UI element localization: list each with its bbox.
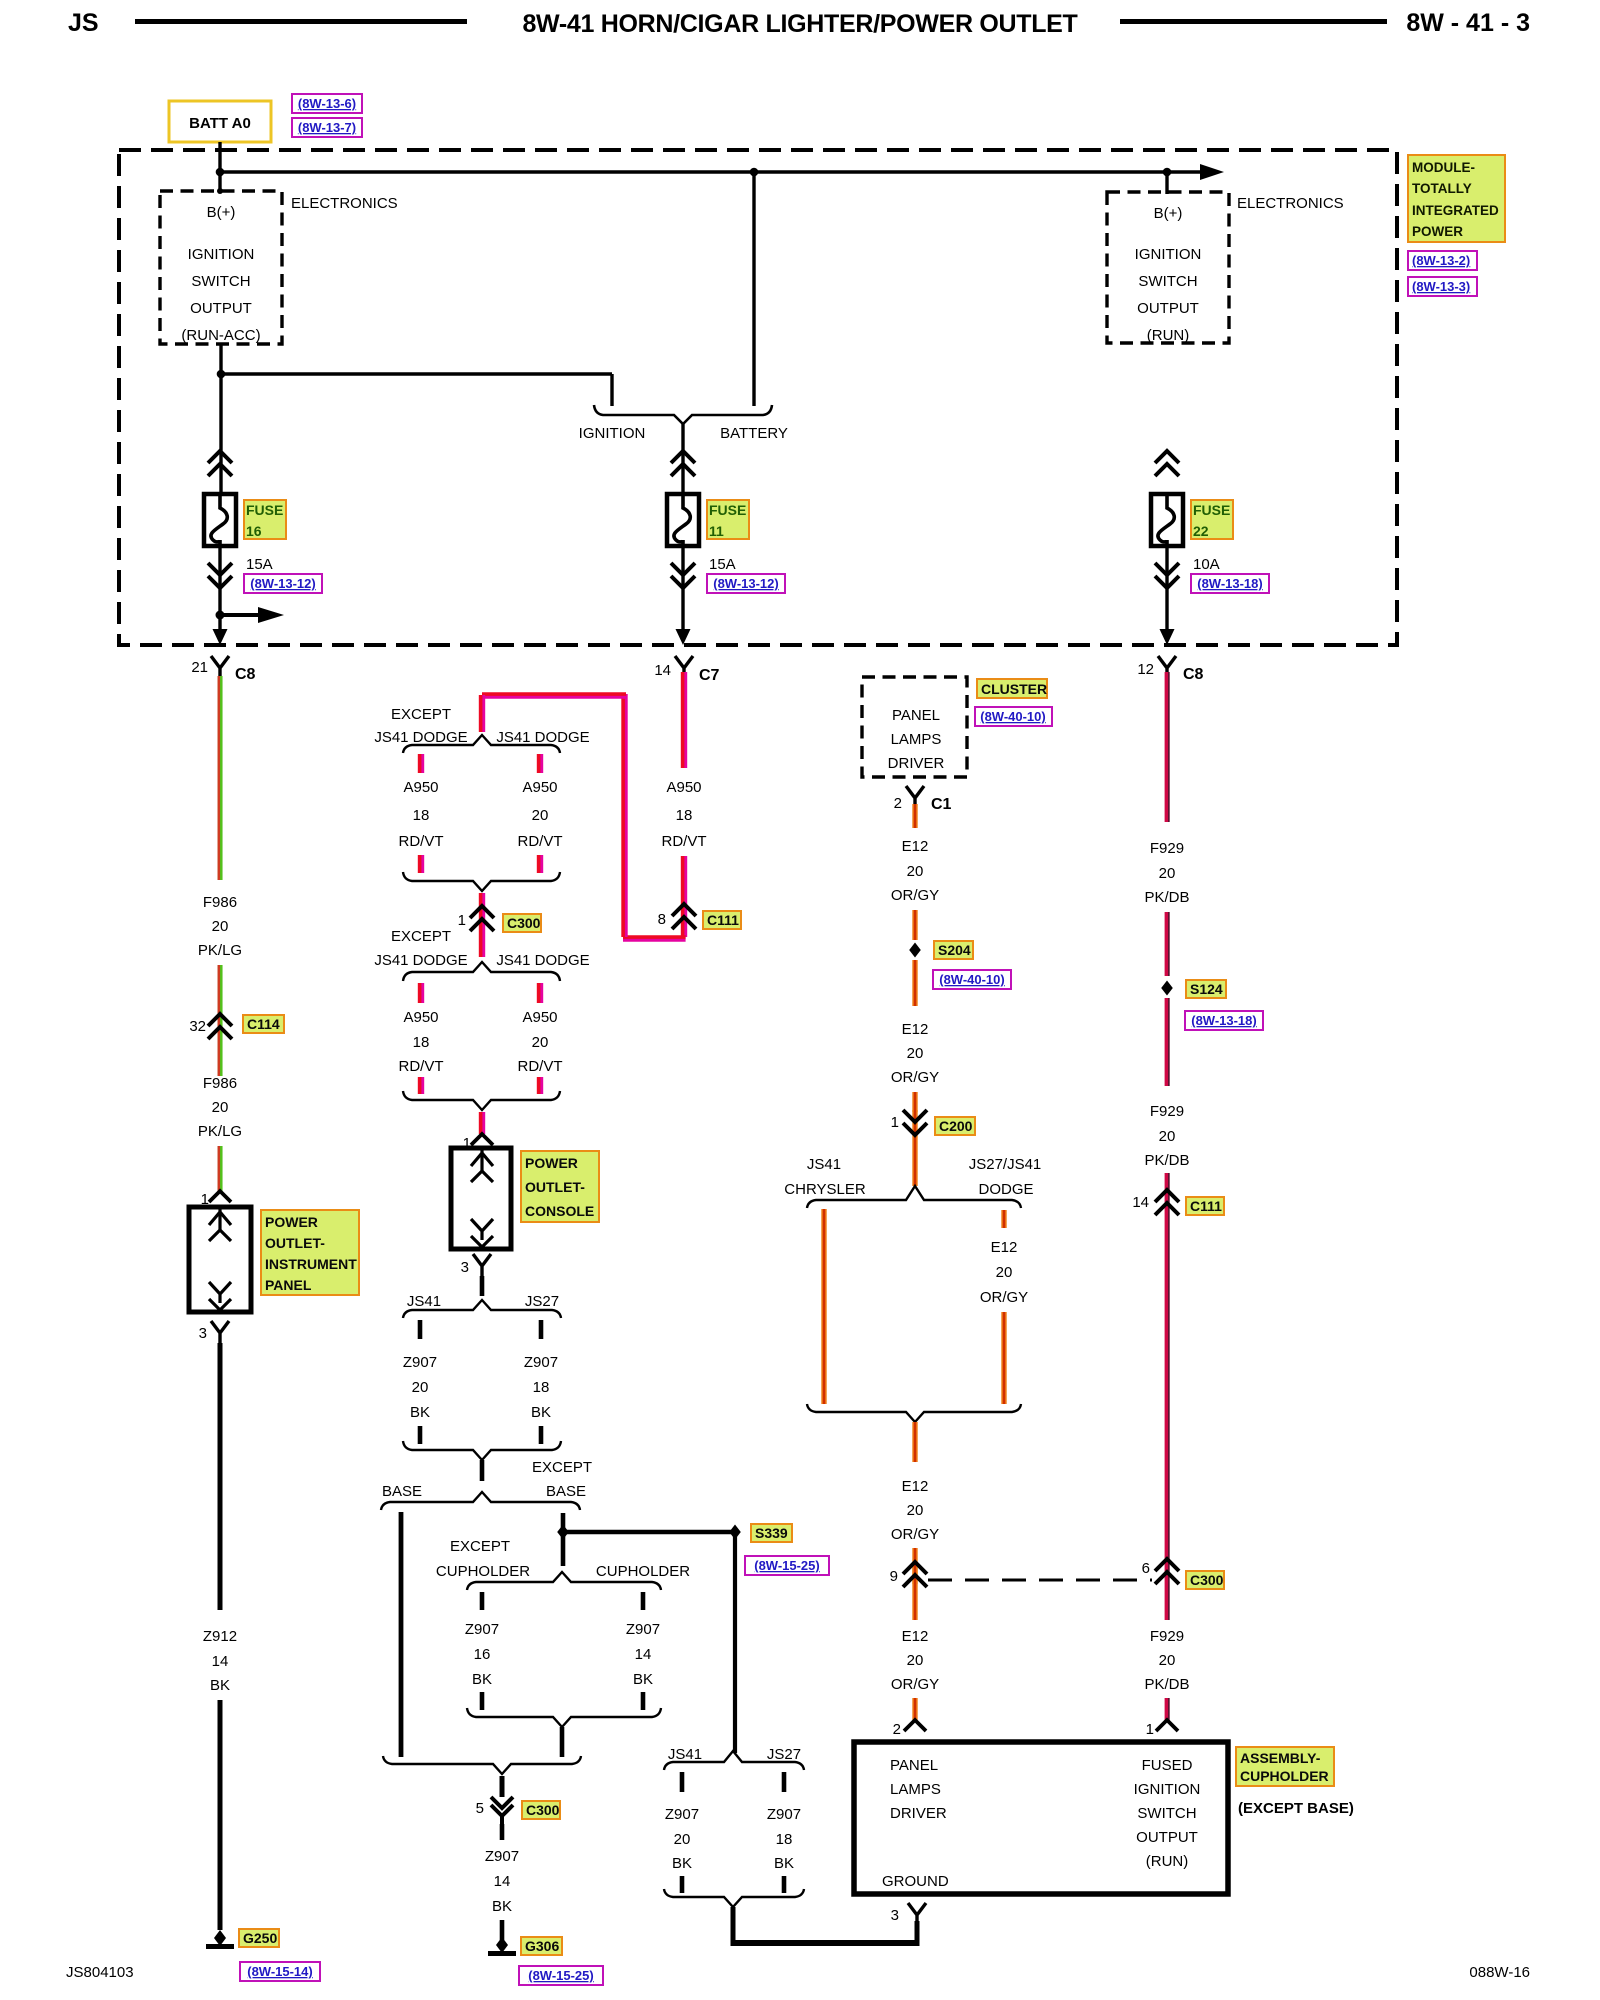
label C300 (pin5) [522,1801,560,1819]
svg-text:G306: G306 [525,1938,559,1954]
svg-text:BASE: BASE [546,1483,586,1500]
value Z907 18 BK (right) [767,1806,801,1872]
svg-text:14: 14 [494,1873,511,1890]
svg-text:20: 20 [907,863,924,880]
label C200 [935,1117,975,1135]
wire BASE branch (long) [399,1512,404,1757]
connector C8 pin 21 [191,656,255,683]
svg-text:(8W-13-7): (8W-13-7) [298,120,356,135]
svg-text:C8: C8 [235,666,256,683]
svg-text:ASSEMBLY-: ASSEMBLY- [1240,1750,1321,1766]
wire E12 20 OR/GY from C1 [912,804,917,828]
wire merged cupholder [560,1727,565,1757]
svg-text:OR/GY: OR/GY [891,1526,939,1543]
svg-text:POWER: POWER [1412,224,1463,239]
connector B(+) ignition switch output RUN (dashed box) [1107,192,1229,344]
svg-text:S124: S124 [1190,981,1223,997]
wire below S339 left [561,1532,566,1566]
wire stubs to merge [418,1426,423,1444]
link (8W-13-12) fuse 11 [707,574,785,593]
wire to power outlet console [481,1112,483,1134]
wire dashed pairing C300 [928,1579,1152,1582]
label CLUSTER [977,679,1047,698]
svg-text:20: 20 [412,1379,429,1396]
link (8W-13-12) fuse 16 [244,574,322,593]
svg-text:C300: C300 [526,1802,560,1818]
svg-text:JS804103: JS804103 [66,1964,134,1981]
value A950 20 RD/VT right lower [518,1009,563,1075]
svg-text:3: 3 [461,1259,469,1276]
wire console ground lead [480,1276,485,1296]
pin 3 console [461,1254,491,1276]
svg-text:F929: F929 [1150,1628,1184,1645]
svg-text:15A: 15A [709,556,736,573]
label C111 (pin14) [1186,1197,1224,1215]
connector C111 pin 8 [658,904,696,929]
svg-text:1: 1 [458,912,466,929]
wire ignition branch drop [610,374,613,406]
value A950 18 RD/VT left [399,779,444,850]
svg-text:2: 2 [894,795,902,812]
wire from BATT A0 down [218,142,221,191]
svg-text:POWER: POWER [525,1155,578,1171]
svg-text:CUPHOLDER: CUPHOLDER [596,1563,690,1580]
wire [219,965,220,1014]
svg-text:BATT A0: BATT A0 [189,115,251,132]
wire stub JS27 [539,1320,544,1339]
page header [68,9,1530,38]
svg-text:RD/VT: RD/VT [662,833,707,850]
option split JS41 / JS27 (ground return) [664,1751,804,1770]
wire Z912 14 BK upper [218,1343,223,1610]
connector C7 pin 14 [654,656,719,684]
svg-text:(8W-13-6): (8W-13-6) [298,96,356,111]
svg-text:Z912: Z912 [203,1628,237,1645]
svg-text:3: 3 [199,1325,207,1342]
svg-text:20: 20 [674,1831,691,1848]
value F986 20 PK/LG [198,894,242,959]
svg-text:3: 3 [891,1907,899,1924]
svg-text:BATTERY: BATTERY [720,425,788,442]
svg-text:E12: E12 [902,838,929,855]
link 8W-13-2 [1408,251,1477,270]
ground G250 [206,1930,234,1949]
value Z907 20 BK [403,1354,437,1421]
svg-text:C300: C300 [507,915,541,931]
svg-text:FUSE: FUSE [709,502,746,518]
wire stubs [420,983,541,1003]
svg-text:SWITCH: SWITCH [191,273,250,290]
svg-text:8W-41 HORN/CIGAR LIGHTER/POWER: 8W-41 HORN/CIGAR LIGHTER/POWER OUTLET [522,10,1077,38]
wire stubs cupholder [480,1592,485,1610]
svg-text:A950: A950 [403,1009,438,1026]
svg-text:(8W-40-10): (8W-40-10) [980,709,1045,724]
svg-text:EXCEPT: EXCEPT [450,1538,510,1555]
wire B+ bus horizontal with arrow [220,164,1224,180]
svg-text:(EXCEPT BASE): (EXCEPT BASE) [1238,1800,1354,1817]
link 8W-13-18 (S124) [1185,1011,1263,1030]
svg-text:Z907: Z907 [403,1354,437,1371]
svg-text:PANEL: PANEL [892,707,940,724]
link 8W-15-14 [240,1962,320,1981]
label C300 [503,914,541,932]
svg-text:LAMPS: LAMPS [891,731,942,748]
svg-text:A950: A950 [522,1009,557,1026]
svg-text:IGNITION: IGNITION [188,246,255,263]
link (8W-13-18) fuse 22 [1191,574,1269,593]
label ASSEMBLY-CUPHOLDER [1236,1747,1334,1786]
svg-text:32: 32 [189,1018,206,1035]
svg-text:EXCEPT: EXCEPT [391,706,451,723]
wire merged [480,1460,485,1481]
svg-text:F929: F929 [1150,1103,1184,1120]
fuse 11 [667,451,699,645]
wire stubs to merge [680,1876,685,1893]
label C114 [243,1015,284,1033]
svg-text:14: 14 [212,1653,229,1670]
option split JS41 / JS27 [403,1300,561,1318]
svg-text:20: 20 [907,1502,924,1519]
splice S339 junction left [557,1525,569,1540]
svg-text:B(+): B(+) [1154,205,1183,222]
svg-text:(RUN): (RUN) [1146,1853,1189,1870]
svg-text:8W - 41 - 3: 8W - 41 - 3 [1406,9,1530,37]
svg-text:JS41 DODGE: JS41 DODGE [374,952,467,969]
option merge brace (E12) [807,1404,1021,1422]
svg-text:PK/LG: PK/LG [198,942,242,959]
svg-text:F929: F929 [1150,840,1184,857]
wire RUN-ACC output drop [219,344,222,496]
wire long run [1166,1190,1167,1561]
svg-text:EXCEPT: EXCEPT [532,1459,592,1476]
option merge brace upper [403,872,560,891]
svg-text:(8W-15-25): (8W-15-25) [528,1968,593,1983]
svg-text:14: 14 [654,662,671,679]
wire stubs to cupholder merge [480,1692,485,1710]
svg-text:E12: E12 [991,1239,1018,1256]
wire merged E12 [912,1422,917,1462]
node junction with take-off arrow inside TIPM [216,607,285,623]
svg-text:OR/GY: OR/GY [980,1289,1028,1306]
label FUSE 16 [244,500,286,539]
wire to fused ignition input [1166,1698,1167,1722]
svg-text:JS27: JS27 [525,1293,559,1310]
fuse 16 [204,451,236,645]
wire Z912 lower [218,1700,223,1930]
wire [683,856,685,906]
wire JS41 CHRYSLER branch [821,1209,826,1404]
connector C300 pin 9 [890,1562,927,1587]
svg-text:(8W-13-12): (8W-13-12) [250,576,315,591]
value A950 20 RD/VT right [518,779,563,850]
svg-text:BK: BK [672,1855,692,1872]
wire below C300 [481,906,483,957]
svg-text:BK: BK [410,1404,430,1421]
svg-text:F986: F986 [203,1075,237,1092]
svg-text:OR/GY: OR/GY [891,1069,939,1086]
svg-text:CONSOLE: CONSOLE [525,1203,594,1219]
svg-text:B(+): B(+) [207,204,236,221]
svg-text:Z907: Z907 [767,1806,801,1823]
value F929 20 PK/DB third [1144,1628,1189,1693]
wire [219,1014,220,1076]
wire [219,1146,220,1191]
label S204 [934,941,973,959]
svg-text:CHRYSLER: CHRYSLER [784,1181,866,1198]
value E12 20 OR/GY third [891,1478,939,1543]
wire Z907 14 BK to ground [500,1824,505,1840]
svg-text:1: 1 [891,1114,899,1131]
svg-text:18: 18 [776,1831,793,1848]
svg-text:BK: BK [472,1671,492,1688]
wire stub left branch [420,754,422,773]
svg-text:OUTLET-: OUTLET- [265,1235,325,1251]
label C111 [703,911,741,929]
svg-text:16: 16 [474,1646,491,1663]
connector B(+) ignition switch output RUN-ACC (dashed box) [160,191,282,344]
wire right B+ drop [1165,172,1168,194]
value E12 20 OR/GY fourth [891,1628,939,1693]
svg-text:C111: C111 [1190,1198,1222,1214]
option split BASE / EXCEPT BASE [381,1492,580,1510]
pin 3 power outlet IP [199,1321,229,1343]
svg-text:20: 20 [532,807,549,824]
wire ground return [733,1907,920,1946]
label POWER OUTLET-CONSOLE [521,1151,599,1222]
value E12 20 OR/GY second [891,1021,939,1086]
svg-text:C111: C111 [707,912,739,928]
svg-text:C8: C8 [1183,666,1204,683]
svg-text:RD/VT: RD/VT [399,833,444,850]
svg-text:ELECTRONICS: ELECTRONICS [1237,195,1344,212]
svg-text:MODULE-: MODULE- [1412,160,1475,175]
svg-text:JS41: JS41 [407,1293,441,1310]
wire [1166,998,1167,1086]
svg-text:SWITCH: SWITCH [1138,273,1197,290]
option split EXCEPT CUPHOLDER / CUPHOLDER [467,1572,661,1590]
splice S339 [729,1525,741,1540]
svg-text:CUPHOLDER: CUPHOLDER [1240,1768,1329,1784]
wire F986 20 PK/LG upper [219,676,220,880]
svg-text:20: 20 [1159,1128,1176,1145]
svg-text:(RUN): (RUN) [1147,327,1190,344]
label POWER OUTLET-INSTRUMENT PANEL [261,1210,359,1295]
wire stub right branch [539,754,541,773]
svg-text:14: 14 [1132,1194,1149,1211]
svg-text:088W-16: 088W-16 [1469,1964,1530,1981]
svg-text:Z907: Z907 [524,1354,558,1371]
svg-text:15A: 15A [246,556,273,573]
link 8W-40-10 (cluster) [975,707,1052,726]
svg-text:RD/VT: RD/VT [518,833,563,850]
pin 1 chevron console [463,1134,493,1152]
svg-text:Z907: Z907 [465,1621,499,1638]
svg-text:PANEL: PANEL [890,1757,938,1774]
component CLUSTER panel lamps driver (dashed box) [862,677,967,777]
value F986 20 PK/LG lower [198,1075,242,1140]
option split EXCEPT JS41 DODGE / JS41 DODGE (upper) [403,735,560,753]
link 8W-15-25 (G306) [519,1966,603,1985]
link 8W-40-10 (S204) [933,970,1011,989]
svg-text:(8W-13-12): (8W-13-12) [713,576,778,591]
svg-text:PK/DB: PK/DB [1144,1152,1189,1169]
svg-text:IGNITION: IGNITION [579,425,646,442]
pin 1 chevron cupholder assembly [1146,1720,1178,1738]
pin 2 chevron cupholder assembly [893,1720,926,1738]
value Z907 20 BK (left) [665,1806,699,1872]
svg-text:FUSE: FUSE [1193,502,1230,518]
wire [912,1548,917,1584]
svg-text:PK/DB: PK/DB [1144,1676,1189,1693]
svg-text:C1: C1 [931,796,952,813]
svg-text:GROUND: GROUND [882,1873,949,1890]
svg-text:8: 8 [658,911,666,928]
svg-text:(RUN-ACC): (RUN-ACC) [181,327,260,344]
wire red run to option split [481,694,686,939]
svg-text:JS41 DODGE: JS41 DODGE [496,729,589,746]
svg-text:18: 18 [533,1379,550,1396]
svg-text:IGNITION: IGNITION [1135,246,1202,263]
wire stubs [680,1772,685,1792]
wire battery drop [752,172,755,406]
wire F929 20 PK/DB from C8 [1166,672,1167,822]
footer sheet numbers [66,1964,1530,1981]
svg-text:20: 20 [1159,865,1176,882]
switch feed merge brace IGNITION/BATTERY [594,405,772,424]
svg-text:10A: 10A [1193,556,1220,573]
svg-text:OUTPUT: OUTPUT [190,300,252,317]
wire below pin 6 [1166,1559,1167,1620]
connector C8 pin 12 [1137,656,1203,683]
svg-text:PK/DB: PK/DB [1144,889,1189,906]
svg-text:RD/VT: RD/VT [399,1058,444,1075]
wire [912,960,917,1006]
link 8W-15-25 [745,1556,829,1575]
label FUSE 11 [707,500,749,539]
label C300 (pin6) [1186,1571,1224,1589]
wire [500,1920,505,1940]
svg-text:16: 16 [246,523,262,539]
svg-text:BK: BK [492,1898,512,1915]
value E12 20 OR/GY [891,838,939,904]
wire EXCEPT BASE stub [561,1513,566,1530]
svg-text:1: 1 [1146,1721,1154,1738]
pin 3 ground lead [891,1903,926,1925]
wire [912,910,917,940]
wire to panel lamps driver input [912,1698,917,1722]
value F929 20 PK/DB [1144,840,1189,906]
svg-text:22: 22 [1193,523,1209,539]
svg-text:Z907: Z907 [485,1848,519,1865]
svg-text:LAMPS: LAMPS [890,1781,941,1798]
wire splice crossover [563,1530,735,1534]
svg-text:JS27/JS41: JS27/JS41 [969,1156,1042,1173]
svg-text:6: 6 [1142,1560,1150,1577]
connector C111 pin 14 [1132,1190,1179,1215]
wire [1166,1173,1167,1192]
svg-text:DRIVER: DRIVER [888,755,945,772]
svg-text:IGNITION: IGNITION [1134,1781,1201,1798]
svg-text:JS41 DODGE: JS41 DODGE [374,729,467,746]
svg-text:RD/VT: RD/VT [518,1058,563,1075]
svg-text:A950: A950 [522,779,557,796]
splice S204 [909,943,921,958]
node junction at BATT wire [216,168,225,177]
svg-text:2: 2 [893,1721,901,1738]
svg-text:INTEGRATED: INTEGRATED [1412,203,1499,218]
wire to C300 pin 1 [481,893,483,908]
wire stub JS27/JS41 DODGE branch [1001,1210,1006,1228]
node junction ignition branch [217,370,226,379]
connector C200 pin 1 [891,1110,927,1135]
svg-text:20: 20 [907,1045,924,1062]
svg-text:BASE: BASE [382,1483,422,1500]
wire below C200 [912,1110,917,1186]
svg-text:9: 9 [890,1568,898,1585]
wire merged feed to fuse 11 [681,424,684,496]
svg-text:JS41: JS41 [668,1746,702,1763]
link 8W-13-7 [292,118,362,137]
value Z907 18 BK [524,1354,558,1421]
svg-text:18: 18 [676,807,693,824]
svg-text:C200: C200 [939,1118,973,1134]
connector C300 pin 1 [458,906,494,931]
connector C1 pin 2 [894,786,952,813]
svg-text:(8W-15-25): (8W-15-25) [754,1558,819,1573]
svg-text:18: 18 [413,807,430,824]
svg-text:FUSE: FUSE [246,502,283,518]
option merge brace lower [403,1091,560,1110]
svg-text:20: 20 [907,1652,924,1669]
svg-text:21: 21 [191,659,208,676]
option split JS41 CHRYSLER / JS27-JS41 DODGE [807,1186,1021,1208]
fuse 22 [1151,451,1183,645]
value A950 18 RD/VT left lower [399,1009,444,1075]
connector C114 pin 32 [189,1014,232,1039]
value E12 20 OR/GY (dodge branch) [980,1239,1028,1306]
wire [912,1092,917,1112]
svg-text:ELECTRONICS: ELECTRONICS [291,195,398,212]
svg-text:F986: F986 [203,894,237,911]
svg-text:20: 20 [212,1099,229,1116]
final merge brace to C300 pin 5 [383,1756,581,1774]
splice S124 [1161,981,1173,996]
svg-text:JS: JS [68,9,99,37]
module totally integrated power boundary (dashed) [119,150,1397,645]
component ASSEMBLY-CUPHOLDER (panel lamps driver) [854,1742,1228,1894]
svg-text:5: 5 [476,1800,484,1817]
wire A950 18 RD/VT from C7 [683,672,685,768]
svg-text:OR/GY: OR/GY [891,1676,939,1693]
ground G306 [488,1937,516,1956]
svg-text:C114: C114 [247,1016,280,1032]
svg-text:Z907: Z907 [665,1806,699,1823]
label MODULE-TOTALLY INTEGRATED POWER [1408,155,1505,242]
wire stub JS41 [418,1320,423,1339]
svg-text:BK: BK [531,1404,551,1421]
svg-text:(8W-13-3): (8W-13-3) [1412,279,1470,294]
value Z912 14 BK [203,1628,237,1694]
wire S339 to panel lamps return [733,1532,737,1753]
component POWER OUTLET-CONSOLE [451,1148,511,1249]
svg-text:S204: S204 [938,942,971,958]
option merge brace cupholder [467,1708,661,1727]
svg-text:G250: G250 [243,1930,277,1946]
node junction right branch [1163,168,1172,177]
svg-text:(8W-15-14): (8W-15-14) [247,1964,312,1979]
svg-text:OUTPUT: OUTPUT [1137,300,1199,317]
wire ignition branch horizontal [221,372,612,375]
